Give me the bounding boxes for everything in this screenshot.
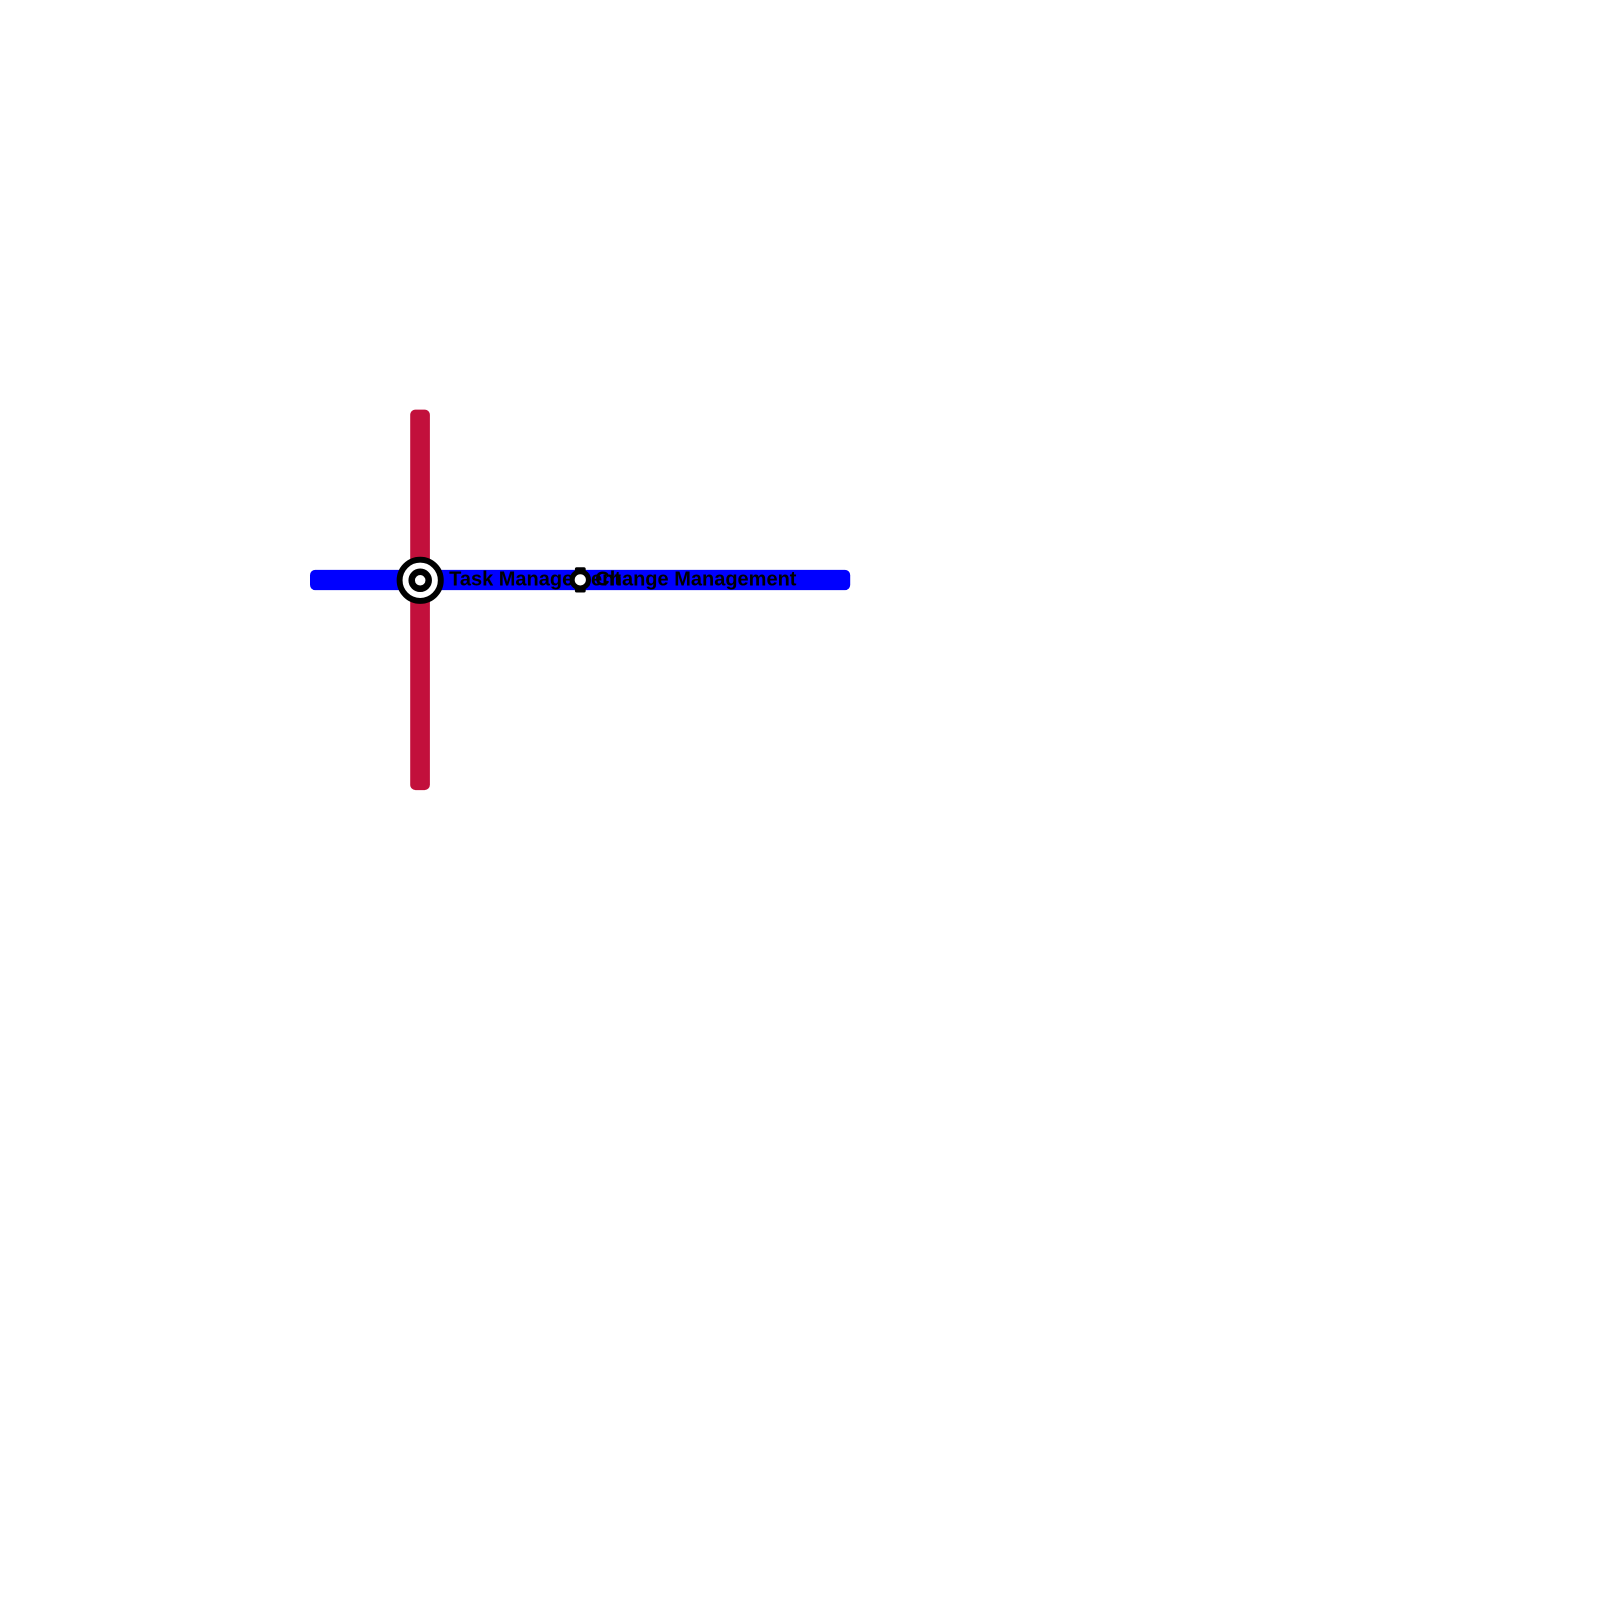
svg-text:Change Management: Change Management bbox=[595, 568, 796, 590]
